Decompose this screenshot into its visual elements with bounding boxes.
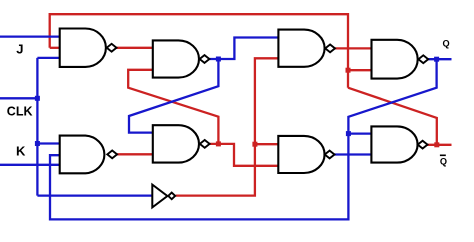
bubble U9: [168, 193, 175, 200]
junction U2 output: [216, 57, 221, 62]
junction U6 output: [216, 141, 221, 146]
bubble U7: [325, 151, 335, 159]
bubble U4: [418, 55, 428, 63]
junction CLK at gate U5 branch: [35, 141, 40, 146]
junction Qbar output: [434, 142, 439, 147]
nand gate U6: [153, 125, 199, 162]
wire U3 output to U4 (red): [335, 47, 372, 49]
wire J input (blue): [0, 35, 60, 37]
wire Qbar feedback top run (red): [50, 14, 348, 88]
wire U2 output to U3 (blue): [209, 38, 278, 60]
bubble U5: [107, 151, 117, 159]
wire CLK branch to gate U5 (blue): [37, 142, 59, 144]
bubble U3: [325, 45, 335, 53]
nand gate U3: [278, 30, 324, 67]
label Qbar overline: [440, 155, 446, 157]
junction Q at gate U8 branch: [346, 131, 351, 136]
wire U6 output to U7 (red): [210, 144, 279, 166]
wire U5 output to U6 (red): [117, 153, 153, 155]
wire Q branch to gate U8 (blue): [348, 132, 371, 134]
wire U6 output cross diagonal to U2 (red): [128, 70, 218, 144]
wire U2 output cross diagonal to U6 (blue): [129, 59, 218, 133]
svg-text:J: J: [16, 42, 23, 57]
wire K input (blue): [0, 164, 60, 166]
inverter U9: [152, 185, 167, 208]
wire CLK branch to inverter U9 (blue): [37, 194, 152, 196]
nand gate U8: [371, 126, 417, 162]
svg-text:Q: Q: [440, 156, 447, 166]
wire Qbar output (red): [428, 144, 452, 146]
wire Qbar feedback into gate U1 (red): [50, 47, 60, 49]
wire CLK input horizontal (blue): [0, 97, 37, 99]
junction Q output: [434, 57, 439, 62]
wire Qbar slave cross diagonal (red): [348, 88, 437, 145]
wire U1 output to U2 (red): [117, 47, 153, 49]
svg-text:K: K: [16, 144, 26, 159]
wire Qbar branch to gate U4 (red): [348, 69, 372, 71]
nand gate U1: [60, 29, 106, 67]
wire Q output (blue): [428, 58, 451, 60]
wire CLK vertical trunk (blue): [36, 58, 38, 196]
nand gate U2: [153, 40, 199, 77]
wire CLKbar branch to U7 (red): [255, 143, 278, 145]
junction CLKbar at U7 branch: [252, 142, 257, 147]
bubble U8: [418, 141, 428, 149]
svg-text:CLK: CLK: [7, 104, 33, 118]
nand gate U4: [372, 40, 418, 79]
svg-text:Q: Q: [443, 38, 450, 48]
bubble U6: [200, 140, 210, 148]
bubble U1: [107, 44, 117, 52]
wire inverter output CLKbar (red): [176, 58, 279, 195]
wire CLK branch to gate U1 (blue): [37, 57, 59, 59]
wire Q slave cross diagonal and feedback to U5 (blue): [50, 59, 437, 219]
wire U7 output to U8 (blue): [335, 153, 372, 155]
junction Qbar at gate U4 branch: [346, 68, 351, 73]
nand gate U7: [278, 136, 324, 173]
junction CLK at input wire: [35, 96, 40, 101]
bubble U2: [200, 55, 210, 63]
nand gate U5: [60, 136, 105, 174]
